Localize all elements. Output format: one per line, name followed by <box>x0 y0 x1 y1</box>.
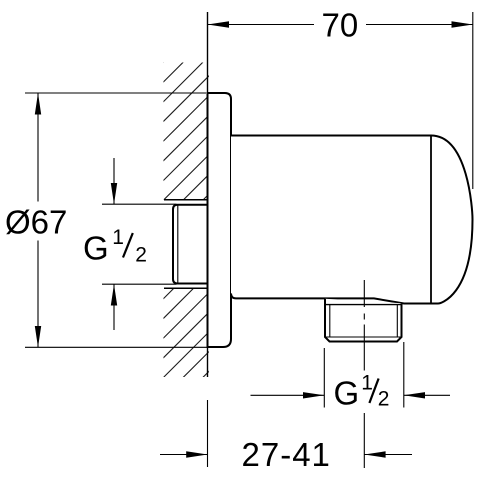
svg-text:G: G <box>334 375 360 412</box>
dim G1/2 bottom right line + arrow <box>404 394 450 396</box>
dim 27-41 left line + arrow <box>160 454 208 456</box>
cap joint line <box>430 136 432 303</box>
wall hatching <box>0 0 480 380</box>
outlet thread end line <box>325 336 402 338</box>
svg-text:Ø67: Ø67 <box>5 204 67 241</box>
dim G1/2 bottom extension left <box>323 348 325 408</box>
dim G1/2 bottom extension right <box>403 342 405 408</box>
dim G1/2 left extension bottom <box>102 283 177 285</box>
outlet pipe G1/2 <box>325 299 402 342</box>
wall opening bottom edge <box>164 287 208 289</box>
flange (escutcheon) <box>208 93 232 347</box>
outlet shoulder line <box>325 304 402 306</box>
dim 27-41 right line + arrow <box>364 454 412 456</box>
dim G1/2 bottom left line + arrow <box>251 394 325 396</box>
wall opening top edge <box>164 199 208 201</box>
body with rounded cap <box>231 136 473 304</box>
dim O67 arrow bottom <box>35 326 41 347</box>
svg-text:27-41: 27-41 <box>242 436 331 473</box>
dim O67 extension top <box>25 92 206 94</box>
inlet pipe thread line <box>177 205 179 283</box>
centerline of outlet <box>363 280 365 307</box>
svg-text:2: 2 <box>135 244 147 267</box>
dim O67 line <box>37 93 39 202</box>
svg-text:1: 1 <box>361 372 373 395</box>
dim 70 arrow left <box>208 21 230 27</box>
svg-text:G: G <box>83 230 109 267</box>
wall face line <box>207 12 209 377</box>
svg-text:70: 70 <box>322 7 359 44</box>
inlet pipe G1/2 (in wall) <box>173 205 208 284</box>
dim O67 arrow top <box>35 93 41 115</box>
wall face extension bottom <box>207 400 209 467</box>
dim G1/2 left upper line + arrow <box>113 158 115 204</box>
dim 70 extension line right <box>472 12 474 189</box>
dim G1/2 left lower line + arrow <box>113 284 115 330</box>
dim O67 extension bottom <box>25 346 210 348</box>
dim 70 arrow right <box>452 21 473 27</box>
outlet thread lines <box>329 305 331 337</box>
svg-text:2: 2 <box>378 388 390 411</box>
dim G1/2 left extension top <box>102 203 177 205</box>
svg-text:1: 1 <box>112 226 124 249</box>
dim 70 line <box>208 24 315 26</box>
